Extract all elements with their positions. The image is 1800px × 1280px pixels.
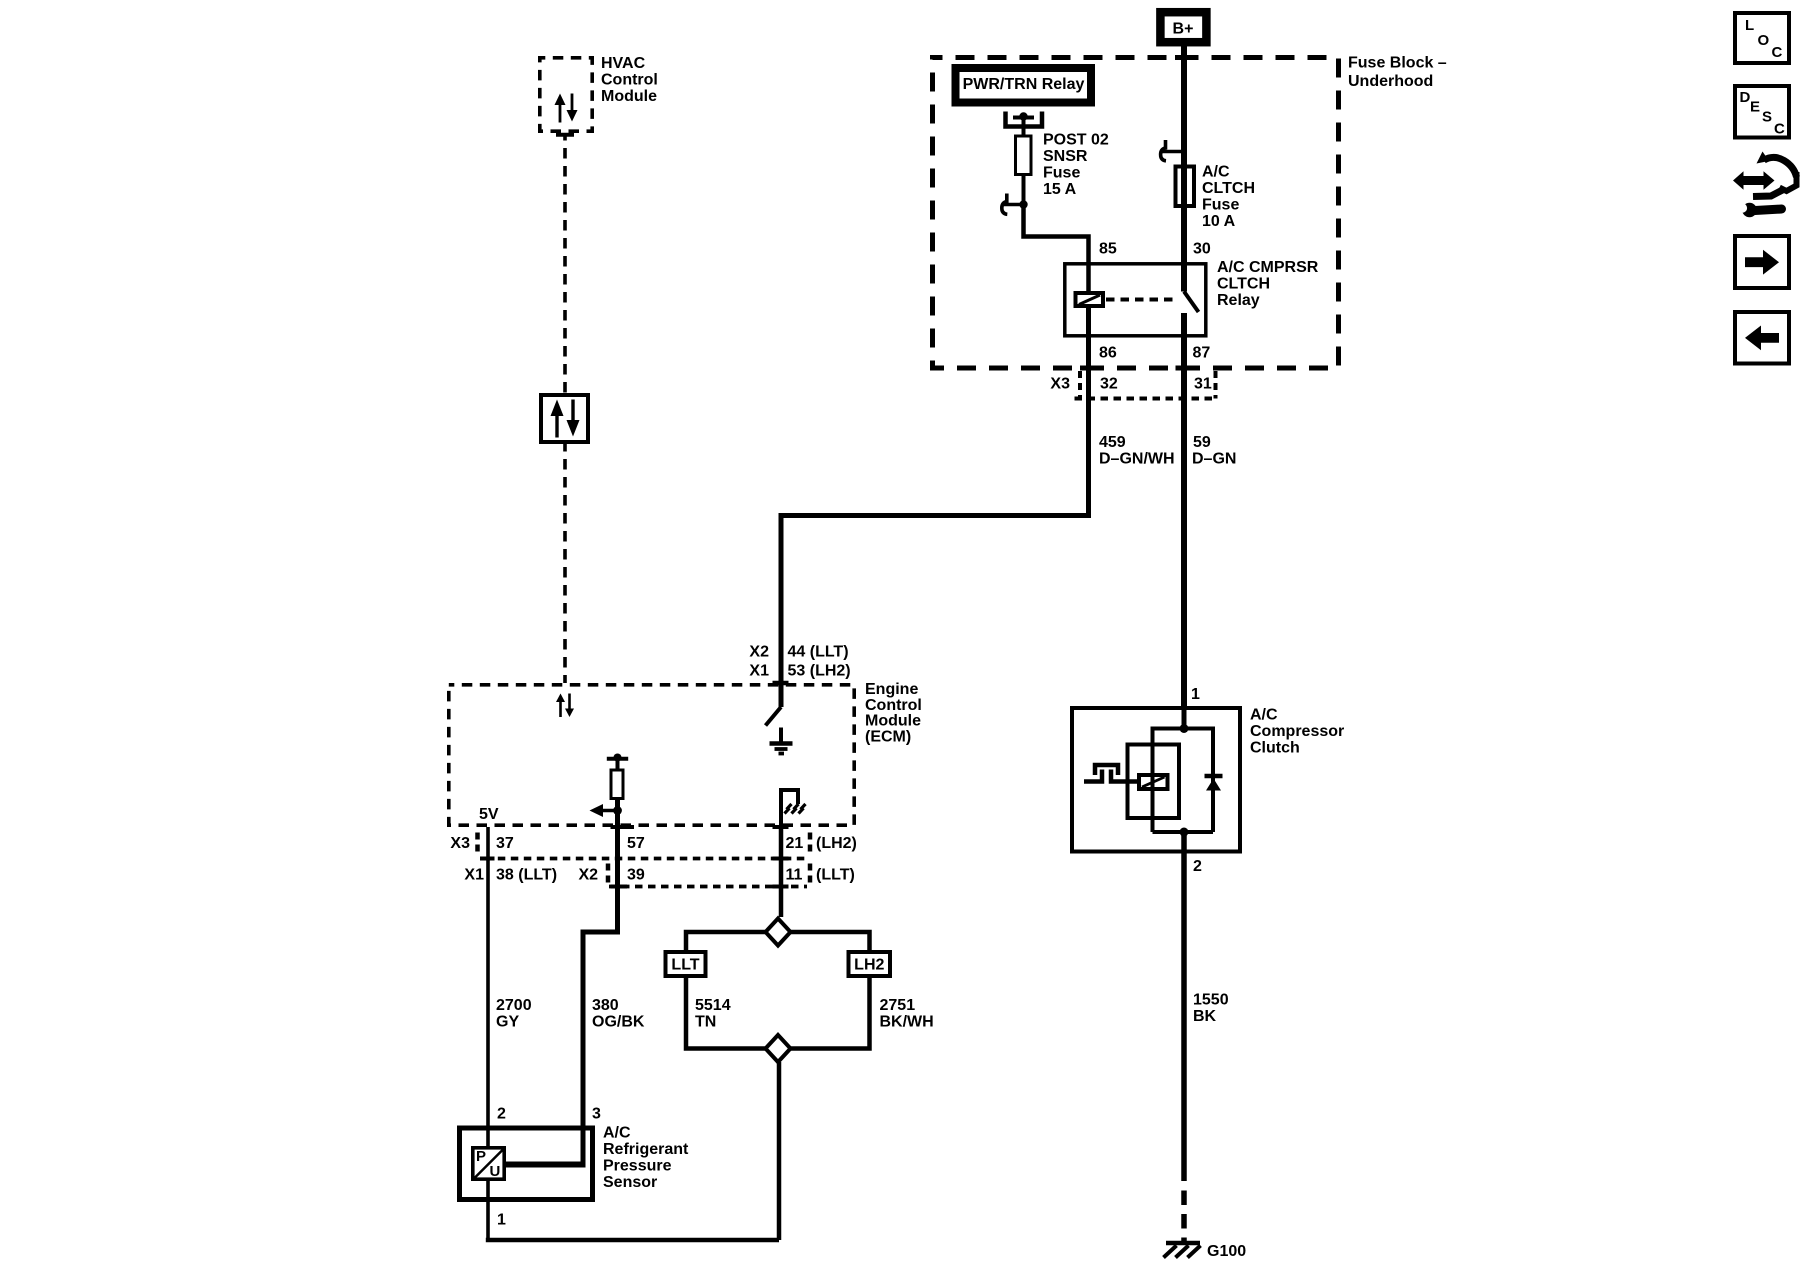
svg-text:LH2: LH2 (854, 957, 884, 974)
svg-text:38 (LLT): 38 (LLT) (496, 867, 557, 884)
svg-text:Compressor: Compressor (1250, 723, 1344, 740)
svg-text:A/C: A/C (1250, 707, 1278, 724)
svg-text:Fuse: Fuse (1043, 165, 1080, 182)
svg-text:2: 2 (497, 1106, 506, 1123)
svg-text:59: 59 (1193, 434, 1211, 451)
svg-text:31: 31 (1194, 376, 1212, 393)
svg-text:Fuse: Fuse (1202, 197, 1239, 214)
svg-text:D–GN: D–GN (1192, 451, 1236, 468)
svg-text:2751: 2751 (880, 997, 916, 1014)
svg-text:B+: B+ (1173, 21, 1194, 38)
svg-text:Fuse Block –: Fuse Block – (1348, 55, 1447, 72)
svg-text:(ECM): (ECM) (865, 729, 911, 746)
svg-text:Refrigerant: Refrigerant (603, 1141, 689, 1158)
svg-text:Module: Module (601, 88, 657, 105)
svg-text:Pressure: Pressure (603, 1158, 672, 1175)
svg-text:OG/BK: OG/BK (592, 1014, 645, 1031)
svg-text:11: 11 (786, 867, 803, 884)
svg-text:37: 37 (496, 835, 514, 852)
svg-text:CLTCH: CLTCH (1217, 276, 1270, 293)
svg-text:X2: X2 (749, 644, 769, 661)
svg-text:21: 21 (786, 835, 804, 852)
svg-text:BK: BK (1193, 1008, 1217, 1025)
svg-text:39: 39 (627, 867, 645, 884)
svg-text:D: D (1740, 89, 1751, 106)
svg-text:Module: Module (865, 713, 921, 730)
svg-text:87: 87 (1193, 345, 1211, 362)
svg-text:380: 380 (592, 997, 619, 1014)
svg-text:Control: Control (601, 72, 658, 89)
svg-text:LLT: LLT (671, 957, 699, 974)
svg-text:SNSR: SNSR (1043, 148, 1088, 165)
svg-text:5V: 5V (479, 806, 499, 823)
svg-text:A/C: A/C (1202, 164, 1230, 181)
svg-text:CLTCH: CLTCH (1202, 180, 1255, 197)
svg-text:X1: X1 (464, 867, 484, 884)
svg-text:1: 1 (1191, 686, 1200, 703)
svg-text:X1: X1 (749, 663, 769, 680)
svg-text:44 (LLT): 44 (LLT) (788, 644, 849, 661)
svg-text:PWR/TRN Relay: PWR/TRN Relay (963, 76, 1085, 93)
svg-text:C: C (1772, 44, 1783, 61)
svg-text:Relay: Relay (1217, 292, 1260, 309)
svg-text:53 (LH2): 53 (LH2) (788, 663, 851, 680)
svg-text:A/C: A/C (603, 1125, 631, 1142)
svg-text:1: 1 (497, 1212, 506, 1229)
svg-text:O: O (1758, 32, 1770, 49)
svg-text:GY: GY (496, 1014, 519, 1031)
svg-text:Clutch: Clutch (1250, 740, 1300, 757)
svg-text:1550: 1550 (1193, 992, 1229, 1009)
svg-text:15 A: 15 A (1043, 181, 1077, 198)
svg-text:Underhood: Underhood (1348, 73, 1433, 90)
svg-text:L: L (1745, 17, 1754, 34)
svg-text:D–GN/WH: D–GN/WH (1099, 451, 1175, 468)
svg-text:86: 86 (1099, 345, 1117, 362)
svg-text:2700: 2700 (496, 997, 532, 1014)
svg-text:57: 57 (627, 835, 645, 852)
svg-text:(LLT): (LLT) (816, 867, 855, 884)
svg-text:Engine: Engine (865, 681, 918, 698)
svg-text:459: 459 (1099, 434, 1126, 451)
svg-text:30: 30 (1193, 241, 1211, 258)
svg-text:2: 2 (1193, 858, 1202, 875)
svg-text:C: C (1774, 121, 1785, 138)
svg-text:X2: X2 (579, 867, 599, 884)
svg-text:Sensor: Sensor (603, 1174, 657, 1191)
svg-text:S: S (1762, 109, 1772, 126)
svg-text:X3: X3 (1050, 376, 1070, 393)
svg-text:X3: X3 (450, 835, 470, 852)
svg-text:P: P (476, 1148, 486, 1165)
svg-text:A/C CMPRSR: A/C CMPRSR (1217, 259, 1319, 276)
svg-text:32: 32 (1100, 376, 1118, 393)
svg-text:Control: Control (865, 697, 922, 714)
svg-text:U: U (490, 1163, 501, 1180)
svg-text:BK/WH: BK/WH (880, 1014, 934, 1031)
svg-text:(LH2): (LH2) (816, 835, 857, 852)
svg-text:E: E (1750, 99, 1760, 116)
svg-text:TN: TN (695, 1014, 716, 1031)
svg-text:10 A: 10 A (1202, 213, 1236, 230)
svg-text:POST 02: POST 02 (1043, 132, 1109, 149)
svg-text:5514: 5514 (695, 997, 731, 1014)
svg-text:G100: G100 (1207, 1243, 1246, 1260)
svg-text:85: 85 (1099, 241, 1117, 258)
svg-text:HVAC: HVAC (601, 55, 646, 72)
svg-text:3: 3 (592, 1106, 601, 1123)
